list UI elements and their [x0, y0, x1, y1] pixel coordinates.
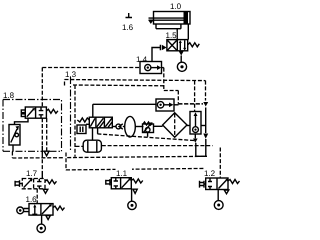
svg-text:1.6: 1.6: [26, 195, 38, 204]
svg-text:1.4: 1.4: [136, 55, 148, 64]
svg-text:1.6: 1.6: [122, 23, 134, 32]
svg-text:1.5: 1.5: [166, 31, 178, 40]
svg-text:1.7: 1.7: [26, 169, 38, 178]
svg-text:1.1: 1.1: [116, 169, 128, 178]
svg-text:1.0: 1.0: [170, 2, 182, 11]
svg-text:1.3: 1.3: [65, 70, 77, 79]
svg-text:1.2: 1.2: [204, 169, 216, 178]
svg-text:1.8: 1.8: [3, 91, 15, 100]
